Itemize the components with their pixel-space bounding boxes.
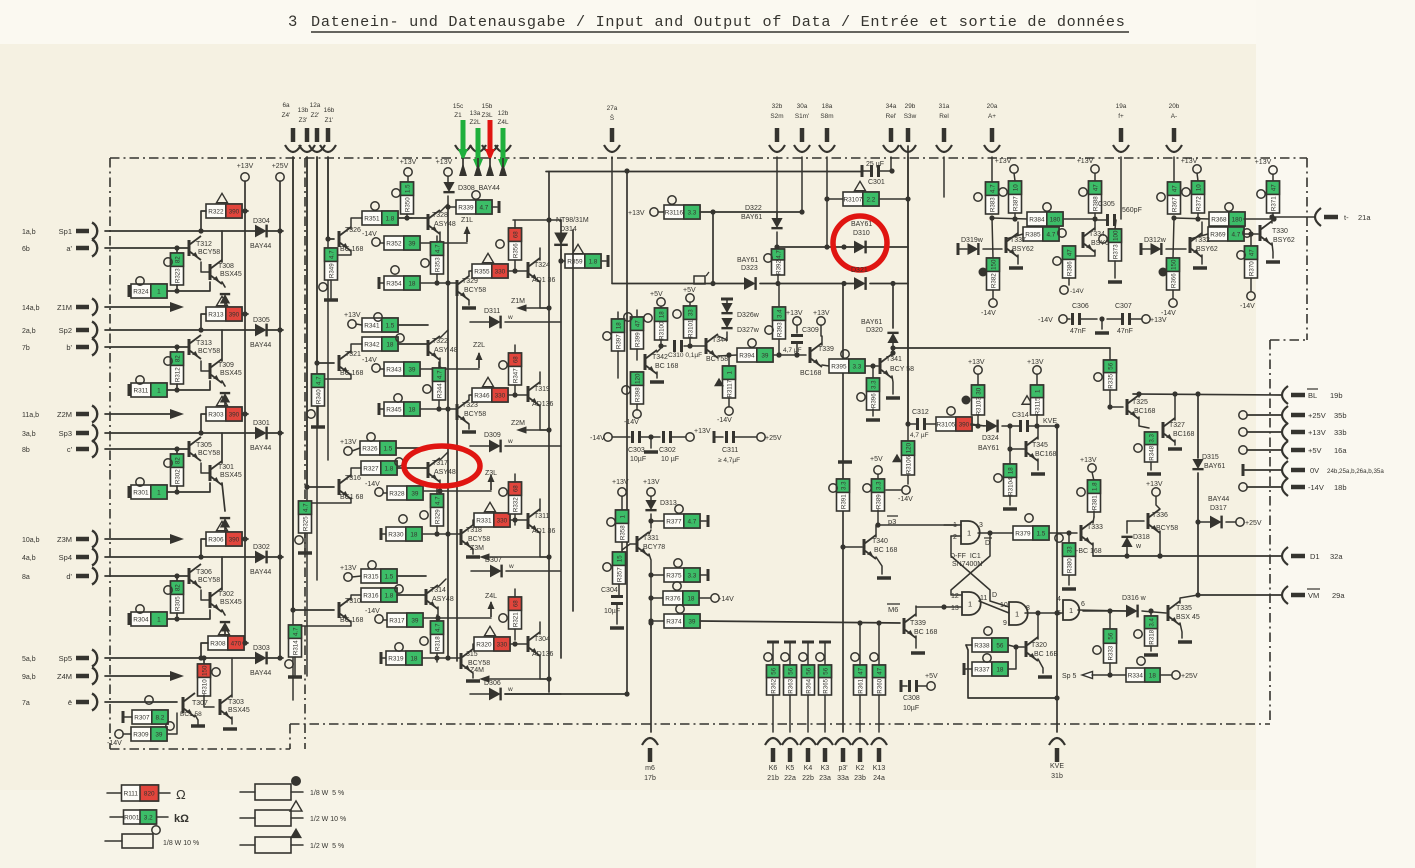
svg-text:Z1: Z1: [454, 112, 462, 119]
resistor R395: [829, 350, 878, 373]
resistor R372: [1181, 158, 1205, 222]
svg-text:BSX45: BSX45: [220, 599, 242, 606]
resistor R322: [201, 193, 248, 231]
svg-text:BSY62: BSY62: [1273, 237, 1295, 244]
connector Rel' 34a: [883, 103, 899, 152]
svg-text:BCY58: BCY58: [468, 660, 490, 667]
svg-text:C309: C309: [802, 327, 819, 334]
svg-text:-14V: -14V: [624, 419, 639, 426]
svg-text:R386: R386: [1066, 261, 1073, 276]
resistor R3104: [994, 446, 1017, 509]
svg-text:R3105: R3105: [936, 422, 955, 429]
diode D309: [470, 432, 561, 452]
resistor R354: [379, 266, 457, 290]
svg-text:Sp4: Sp4: [59, 553, 72, 562]
svg-text:R301: R301: [133, 490, 149, 497]
svg-text:10: 10: [1195, 184, 1202, 191]
svg-text:D321: D321: [851, 267, 868, 274]
svg-text:ASY 48: ASY 48: [434, 347, 458, 354]
svg-text:+13V: +13V: [995, 158, 1012, 165]
svg-text:3.3: 3.3: [687, 210, 696, 217]
transistor T337: [1006, 222, 1034, 268]
connector A+ 20a: [984, 103, 1000, 152]
resistor R352: [362, 231, 420, 250]
connector d' 8a: [22, 568, 97, 585]
resistor R303: [201, 396, 248, 433]
svg-text:R399: R399: [634, 332, 641, 347]
svg-text:T320: T320: [1031, 642, 1047, 649]
svg-text:T339: T339: [818, 346, 834, 353]
connector Z1M 14a,b: [22, 299, 97, 316]
resistor R341: [362, 313, 428, 332]
svg-text:4.7: 4.7: [479, 205, 488, 212]
diode D319w: [958, 237, 1002, 255]
svg-text:10 µF: 10 µF: [661, 456, 679, 463]
resistor R368: [1174, 203, 1277, 226]
svg-text:56: 56: [1107, 362, 1114, 369]
svg-text:1: 1: [157, 617, 161, 624]
wire: [907, 157, 909, 424]
svg-text:R397: R397: [615, 334, 622, 349]
wire Z2' bus: [314, 157, 334, 366]
svg-text:T333: T333: [1087, 524, 1103, 531]
transistor T336: [1146, 481, 1178, 559]
diode clamp: [220, 518, 230, 533]
svg-text:+5V: +5V: [925, 673, 938, 680]
svg-text:C307: C307: [1115, 303, 1132, 310]
svg-text:4.7: 4.7: [687, 519, 696, 526]
wire: [890, 157, 892, 171]
resistor R387: [995, 158, 1022, 222]
resistor R332: [499, 474, 522, 525]
connector Sp1 1a,b: [22, 223, 97, 240]
svg-text:R341: R341: [364, 323, 380, 330]
svg-text:17b: 17b: [644, 775, 656, 782]
svg-text:BSX45: BSX45: [220, 271, 242, 278]
svg-text:D319w: D319w: [961, 237, 984, 244]
resistor R380: [1055, 533, 1076, 589]
svg-text:T329: T329: [462, 278, 478, 285]
svg-text:K5: K5: [786, 765, 795, 772]
svg-text:20b: 20b: [1169, 103, 1180, 110]
svg-text:Sp5: Sp5: [59, 654, 72, 663]
svg-text:D314: D314: [560, 226, 577, 233]
resistor R399: [624, 310, 644, 360]
transistor T323: [457, 395, 486, 432]
svg-text:VM: VM: [1308, 591, 1319, 600]
svg-text:BSY62: BSY62: [1196, 246, 1218, 253]
svg-text:T310: T310: [345, 598, 361, 605]
diode D316w: [1083, 595, 1166, 617]
svg-text:D301: D301: [253, 420, 270, 427]
transistor T335: [1168, 595, 1200, 642]
ic label: [950, 553, 982, 568]
frame left inner: [304, 158, 306, 749]
svg-text:330: 330: [495, 269, 506, 276]
svg-text:1.8: 1.8: [385, 216, 394, 223]
diode D314: [554, 217, 589, 261]
svg-text:R373: R373: [1112, 244, 1119, 259]
transistor T302: [201, 557, 242, 615]
svg-text:R328: R328: [389, 491, 405, 498]
svg-text:R303: R303: [208, 412, 224, 419]
connector Z2L 13a: [469, 110, 486, 152]
svg-text:b': b': [66, 343, 72, 352]
svg-text:AD136: AD136: [532, 401, 554, 408]
connector f+ 19a: [1113, 103, 1129, 152]
svg-text:R334: R334: [1128, 673, 1144, 680]
diode D307: [471, 557, 561, 577]
svg-text:13b: 13b: [298, 107, 309, 114]
svg-text:BAY61: BAY61: [851, 221, 872, 228]
svg-text:R375: R375: [666, 573, 682, 580]
connector Z3L 15b: [481, 103, 498, 152]
svg-text:BCY58: BCY58: [198, 249, 220, 256]
diode clamp: [220, 393, 230, 408]
node E': [694, 272, 709, 284]
svg-text:T314: T314: [430, 587, 446, 594]
svg-text:Sp 5: Sp 5: [1062, 673, 1077, 680]
node Z4M: [470, 667, 552, 683]
resistor R388: [1077, 158, 1102, 219]
svg-text:39: 39: [411, 618, 419, 625]
svg-text:R3106: R3106: [905, 455, 912, 474]
svg-text:BL: BL: [1308, 391, 1317, 400]
svg-text:BC 168: BC 168: [914, 629, 937, 636]
svg-text:+25V: +25V: [765, 435, 782, 442]
connector Z4M 9a,b: [22, 668, 97, 685]
svg-text:Ω: Ω: [176, 787, 186, 802]
resistor R339: [445, 191, 499, 214]
svg-text:BCY58: BCY58: [198, 450, 220, 457]
svg-text:T302: T302: [218, 591, 234, 598]
svg-text:R391: R391: [840, 494, 847, 509]
svg-text:R368: R368: [1211, 217, 1227, 224]
svg-text:BCY58: BCY58: [706, 356, 728, 363]
svg-text:R350: R350: [404, 197, 411, 212]
capacitor C310: [660, 340, 706, 359]
svg-text:R355: R355: [474, 269, 490, 276]
svg-text:R319: R319: [388, 656, 404, 663]
svg-text:BAY44: BAY44: [250, 445, 271, 452]
svg-text:BCY58: BCY58: [198, 348, 220, 355]
wire D306 row: [505, 691, 630, 696]
svg-text:w: w: [507, 438, 513, 445]
svg-text:w: w: [507, 314, 513, 321]
supply +13V rail left: [237, 163, 254, 643]
diode D322: [741, 205, 783, 250]
connector Z3M 10a,b: [22, 531, 97, 548]
svg-text:ASY48: ASY48: [432, 596, 454, 603]
svg-text:25 µF: 25 µF: [866, 161, 884, 168]
svg-text:2a,b: 2a,b: [22, 328, 36, 335]
wire: [826, 157, 828, 247]
wire: [710, 212, 715, 286]
frame top: [110, 157, 1307, 159]
wire flipflop cross: [951, 533, 1009, 613]
node Z4M line: [105, 671, 184, 681]
svg-text:R369: R369: [1210, 232, 1226, 239]
svg-text:A+: A+: [988, 113, 996, 120]
svg-text:8b: 8b: [22, 447, 30, 454]
svg-text:4.7: 4.7: [434, 244, 441, 253]
svg-text:+13V: +13V: [786, 310, 803, 317]
svg-text:C306: C306: [1072, 303, 1089, 310]
svg-text:R398: R398: [634, 387, 641, 402]
resistor R398: [622, 372, 644, 426]
svg-text:R307: R307: [134, 715, 150, 722]
svg-text:15c: 15c: [453, 103, 464, 110]
svg-text:D: D: [992, 592, 997, 599]
svg-text:4,7 µF: 4,7 µF: [783, 347, 802, 354]
red highlight arrow Z3L: [485, 120, 495, 161]
wire: [1120, 157, 1122, 219]
connector Z4' 6a: [282, 102, 301, 152]
svg-text:-14V: -14V: [590, 435, 605, 442]
node p3 label: [887, 516, 898, 526]
svg-text:R324: R324: [133, 289, 149, 296]
svg-text:315: 315: [466, 651, 478, 658]
svg-text:22b: 22b: [802, 775, 814, 782]
resistor R321: [499, 589, 522, 647]
svg-text:180: 180: [1232, 217, 1243, 224]
resistor R340: [307, 374, 325, 427]
svg-text:R383: R383: [989, 197, 996, 212]
svg-text:-14V: -14V: [1308, 483, 1324, 492]
svg-text:1: 1: [1015, 610, 1019, 619]
resistor R306: [201, 521, 248, 557]
svg-text:-14V: -14V: [1038, 317, 1053, 324]
svg-text:BAY61: BAY61: [741, 214, 762, 221]
resistor R309: [107, 713, 177, 747]
connector +13V 33b: [1239, 423, 1347, 441]
svg-text:S1m': S1m': [795, 113, 809, 120]
svg-text:13a: 13a: [470, 110, 481, 117]
frame right lower: [1269, 340, 1271, 724]
svg-text:R357: R357: [616, 567, 623, 582]
svg-text:560pF: 560pF: [1122, 207, 1142, 214]
resistor R319: [381, 643, 461, 665]
resistor R394: [737, 339, 806, 362]
resistor R347: [499, 345, 522, 398]
svg-text:Sp3: Sp3: [59, 429, 72, 438]
resistor R316: [361, 585, 426, 602]
transistor T342: [645, 346, 678, 382]
svg-text:3.3: 3.3: [687, 573, 696, 580]
svg-text:a': a': [66, 244, 72, 253]
svg-text:R312: R312: [174, 367, 181, 382]
resistor R349: [319, 248, 338, 300]
legend resistor kohm: [110, 810, 189, 825]
svg-text:D308 BAY44: D308 BAY44: [458, 185, 500, 192]
wire D1 row: [1093, 553, 1281, 558]
diode D302: [105, 544, 283, 576]
svg-text:+13V: +13V: [1027, 359, 1044, 366]
svg-text:ASY48: ASY48: [434, 469, 456, 476]
wire arrowhead: [459, 158, 467, 176]
node Z3M: [470, 545, 552, 561]
svg-text:10a,b: 10a,b: [22, 537, 40, 544]
connector VM 29a: [1198, 586, 1345, 604]
svg-text:+13V: +13V: [400, 159, 417, 166]
diode D303: [105, 645, 283, 677]
svg-text:Z2L: Z2L: [469, 119, 480, 126]
svg-text:1.8: 1.8: [384, 593, 393, 600]
connector BL 19b: [1282, 386, 1343, 404]
svg-text:R343: R343: [386, 367, 402, 374]
wire KVE vertical: [1037, 423, 1060, 732]
svg-text:BCY58: BCY58: [468, 536, 490, 543]
transistor T312: [105, 236, 220, 260]
svg-text:R389: R389: [875, 494, 882, 509]
resistor R384: [992, 203, 1098, 226]
resistor R305: [164, 576, 184, 619]
resistor R382: [979, 218, 1000, 317]
resistor R376: [648, 582, 734, 605]
svg-text:R351: R351: [364, 216, 380, 223]
wire: [943, 157, 945, 197]
transistor T327: [1163, 391, 1195, 449]
svg-text:C303: C303: [628, 447, 645, 454]
diode D301: [105, 420, 283, 452]
transistor 315: [461, 644, 490, 681]
node Z3L: [485, 470, 497, 490]
resistor R307: [123, 696, 168, 724]
svg-text:Z1M: Z1M: [511, 298, 525, 305]
svg-text:4.7: 4.7: [292, 627, 299, 636]
resistor R3101: [673, 287, 697, 349]
svg-text:1.5: 1.5: [384, 574, 393, 581]
transistor T305: [105, 437, 220, 461]
resistor R318: [420, 615, 444, 662]
svg-text:47: 47: [1270, 184, 1277, 191]
svg-text:R392: R392: [775, 260, 782, 275]
svg-text:T307: T307: [192, 700, 208, 707]
wire D310 row: [777, 244, 908, 249]
svg-text:1: 1: [726, 370, 733, 374]
svg-text:w: w: [1135, 543, 1142, 550]
capacitor C309: [783, 310, 819, 358]
svg-text:1.8: 1.8: [384, 466, 393, 473]
ground: [838, 460, 852, 464]
gate IC1c: [992, 592, 1063, 627]
svg-text:9: 9: [1003, 620, 1007, 627]
svg-text:R3107: R3107: [843, 197, 862, 204]
svg-text:1.5: 1.5: [385, 323, 394, 330]
svg-text:R321: R321: [512, 612, 519, 627]
diode D308: [436, 159, 500, 207]
svg-text:68: 68: [512, 600, 519, 607]
svg-text:18: 18: [408, 281, 416, 288]
svg-text:8a: 8a: [22, 574, 30, 581]
svg-text:+13V: +13V: [1077, 158, 1094, 165]
svg-text:R3100: R3100: [658, 321, 665, 340]
resistor R3117: [714, 352, 736, 424]
svg-text:kΩ: kΩ: [174, 813, 189, 825]
connector t- 21a: [1269, 208, 1371, 226]
svg-text:R374: R374: [666, 619, 682, 626]
svg-text:R311: R311: [133, 388, 148, 395]
frame bottom: [290, 723, 1270, 725]
svg-text:T306: T306: [196, 569, 212, 576]
svg-text:2: 2: [953, 534, 957, 541]
svg-text:56: 56: [822, 667, 829, 674]
diode D321: [851, 267, 868, 290]
svg-text:BC 168: BC 168: [874, 547, 897, 554]
svg-text:18: 18: [615, 322, 622, 329]
legend 1/8W 10%: [105, 826, 199, 848]
svg-text:BSX 45: BSX 45: [1176, 614, 1200, 621]
supply +13V: [340, 565, 361, 581]
svg-text:-14V: -14V: [365, 481, 380, 488]
connector p3' 33a: [835, 738, 851, 782]
svg-text:R317: R317: [389, 618, 405, 625]
svg-text:R385: R385: [1025, 232, 1041, 239]
svg-text:R332: R332: [512, 497, 519, 512]
svg-text:Z2M: Z2M: [57, 410, 72, 419]
svg-text:330: 330: [495, 393, 506, 400]
svg-text:R380: R380: [1066, 558, 1073, 573]
svg-text:24b,25a,b,26a,b,35a: 24b,25a,b,26a,b,35a: [1327, 468, 1384, 475]
capacitor C311: [714, 431, 782, 464]
svg-text:T311: T311: [534, 513, 550, 520]
connector D1 32a: [1282, 547, 1343, 565]
svg-text:R356: R356: [512, 243, 519, 258]
svg-text:-14V: -14V: [362, 231, 377, 238]
frame bottom left ext: [110, 748, 290, 750]
svg-text:4a,b: 4a,b: [22, 555, 36, 562]
svg-text:T301: T301: [218, 464, 234, 471]
svg-text:ē: ē: [68, 698, 72, 707]
resistor R320: [474, 626, 528, 651]
svg-text:R371: R371: [1270, 196, 1277, 211]
svg-text:T345: T345: [1032, 442, 1048, 449]
wire horiz y171: [546, 171, 862, 173]
resistor R330: [381, 515, 461, 541]
connector K5 22a: [782, 738, 798, 782]
svg-text:32b: 32b: [772, 103, 783, 110]
connector Rel 31a: [936, 103, 952, 152]
svg-text:4.7: 4.7: [989, 184, 996, 193]
svg-text:R318: R318: [434, 636, 441, 651]
diode D315: [1192, 391, 1225, 597]
svg-text:R320: R320: [476, 642, 492, 649]
svg-text:+13V: +13V: [694, 428, 711, 435]
svg-text:BC168: BC168: [1173, 431, 1195, 438]
svg-text:+13V: +13V: [643, 479, 660, 486]
green highlight arrow Z2L: [473, 128, 483, 171]
node Z3M line: [105, 534, 184, 544]
resistor R3116: [628, 196, 805, 219]
svg-text:14a,b: 14a,b: [22, 305, 40, 312]
svg-text:D305: D305: [253, 317, 270, 324]
svg-text:R325: R325: [302, 516, 309, 531]
svg-text:BCY 58: BCY 58: [890, 366, 914, 373]
gate IC1b: [916, 592, 987, 615]
svg-text:C305: C305: [1098, 201, 1115, 208]
resistor R360: [870, 623, 886, 732]
svg-text:18b: 18b: [1334, 483, 1347, 492]
svg-text:4.7: 4.7: [434, 496, 441, 505]
resistor R373: [1099, 229, 1122, 282]
svg-text:4,7 µF: 4,7 µF: [910, 432, 929, 439]
transistor T318: [461, 520, 490, 557]
resistor R342: [362, 334, 428, 351]
connector a' 6b: [22, 240, 97, 257]
resistor R325: [295, 501, 312, 553]
svg-text:T316: T316: [345, 475, 361, 482]
svg-text:4.7: 4.7: [328, 250, 335, 259]
